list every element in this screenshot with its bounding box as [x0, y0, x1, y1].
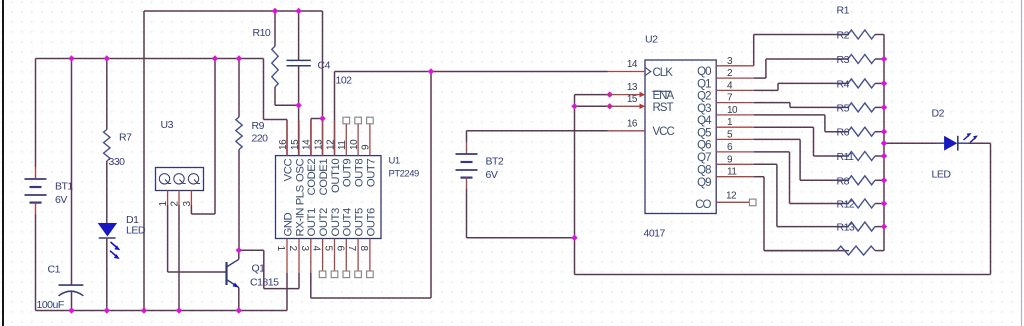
svg-text:9: 9 — [361, 144, 372, 150]
battery BT2 — [456, 154, 504, 181]
wire CLK net — [335, 72, 608, 157]
U1 pin 1 number — [275, 246, 286, 252]
ic U3 box — [156, 119, 204, 191]
U1 pin 4 stub — [322, 239, 324, 274]
ic U2 box — [645, 60, 716, 214]
U2 pin CO name — [695, 199, 711, 211]
wire R5 to bus — [875, 106, 884, 108]
U1 pin 11 stub — [345, 121, 347, 156]
svg-text:VCC: VCC — [653, 126, 675, 138]
wire U1 pin1 GND — [286, 273, 288, 311]
U1 pin 3 stub — [310, 239, 312, 274]
wire top rail — [144, 10, 323, 12]
U1 open terminal — [319, 271, 326, 278]
svg-text:LED: LED — [126, 225, 146, 237]
label R1 — [837, 5, 850, 17]
battery BT1 — [25, 179, 74, 206]
svg-text:U1: U1 — [389, 155, 400, 166]
U1 pin name OUT6 — [365, 208, 377, 236]
wire +V to U1 pin16 — [264, 59, 288, 157]
svg-text:R3: R3 — [837, 54, 850, 66]
svg-text:Q4: Q4 — [697, 115, 712, 127]
U1 pin 14 stub — [310, 121, 312, 156]
wire U3 pin1 to Q1 base — [168, 205, 227, 272]
wire Q7 to row — [754, 152, 849, 204]
U1 pin name OUT5 — [354, 208, 366, 236]
wire BT1 top lead — [35, 59, 37, 180]
svg-text:R5: R5 — [837, 102, 850, 114]
resistor R7 — [104, 130, 132, 169]
wire BT1 bottom lead — [35, 203, 37, 311]
resistor R9 — [236, 117, 268, 150]
wire R10 top lead — [274, 11, 276, 46]
U2 pin Q1 name — [697, 78, 711, 90]
wire RST net — [575, 105, 608, 107]
wire R10 bottom lead — [275, 87, 299, 105]
svg-text:16: 16 — [627, 118, 638, 129]
U1 pin 3 number — [299, 246, 310, 252]
U1 pin name OUT1 — [306, 208, 318, 236]
wire ground rail — [36, 310, 288, 312]
U2 pin 14 CLK — [608, 59, 674, 79]
svg-text:Q0: Q0 — [697, 66, 711, 78]
wire bottom loop — [575, 143, 991, 274]
wire ENA/RST ground vertical — [574, 95, 576, 275]
wire anode bus — [883, 35, 885, 251]
wire bottom resistor leads — [764, 250, 884, 252]
svg-text:PT2249: PT2249 — [389, 169, 419, 180]
svg-text:R8: R8 — [837, 175, 850, 187]
U1 open terminal — [367, 271, 374, 278]
wire C1 top lead — [71, 59, 73, 286]
svg-text:R1: R1 — [837, 5, 850, 17]
U1 open terminal — [343, 271, 350, 278]
svg-text:R4: R4 — [837, 78, 850, 90]
wire R8 to bus — [875, 179, 884, 181]
U1 pin 8 stub — [369, 239, 371, 274]
svg-text:D2: D2 — [932, 108, 945, 120]
U1 pin 6 stub — [345, 239, 347, 274]
U2 pin Q5 name — [697, 127, 711, 139]
wire Q1 collector — [238, 250, 240, 259]
wire R13 to bus — [875, 226, 884, 228]
wire Q6 to row — [754, 139, 849, 180]
U3 contacts — [159, 174, 200, 184]
U1 pin 8 number — [358, 246, 369, 252]
wire R7-D1 lead — [106, 161, 108, 223]
svg-text:10: 10 — [349, 139, 360, 150]
wire R7 top lead — [106, 59, 108, 130]
U2 pin Q6 number — [727, 129, 733, 140]
svg-text:R13: R13 — [837, 222, 855, 234]
svg-text:GND: GND — [282, 212, 294, 236]
svg-text:OUT8: OUT8 — [354, 159, 366, 187]
svg-text:R7: R7 — [119, 131, 132, 143]
U1 pin name CODE1 — [318, 159, 330, 196]
svg-text:12: 12 — [325, 139, 336, 150]
U1 pin name OUT3 — [330, 208, 342, 236]
resistor R3 — [837, 54, 876, 66]
wire Q3 to row — [754, 103, 849, 108]
resistor R11 — [837, 151, 876, 163]
diode D2 LED — [932, 108, 979, 181]
svg-text:6V: 6V — [486, 169, 498, 181]
svg-text:330: 330 — [109, 156, 126, 168]
svg-text:15: 15 — [627, 94, 638, 105]
U1 pin name GND — [282, 212, 294, 236]
U1 pin 7 number — [346, 246, 357, 252]
U1 pin 4 number — [311, 246, 322, 252]
U2 pin Q9 stub — [716, 176, 754, 178]
svg-text:U3: U3 — [161, 119, 174, 131]
svg-text:OUT10: OUT10 — [330, 159, 342, 193]
resistor R (bottom unlabeled) — [837, 246, 875, 255]
svg-text:6V: 6V — [55, 194, 67, 206]
resistor R13 — [837, 222, 876, 234]
svg-text:12: 12 — [726, 191, 737, 202]
svg-text:R10: R10 — [253, 27, 271, 39]
U1 open terminal — [355, 271, 362, 278]
junction dots ENA/RST — [607, 91, 613, 109]
svg-text:100uF: 100uF — [37, 299, 64, 311]
U1 pin name OSC — [294, 159, 306, 182]
U2 pin Q6 name — [697, 140, 711, 152]
resistor R6 — [837, 127, 876, 139]
wire R11 to bus — [875, 155, 884, 157]
svg-text:14: 14 — [302, 139, 313, 150]
U1 open terminal — [343, 117, 350, 124]
U2 pin Q8 name — [697, 165, 711, 177]
U2 pin Q2 stub — [716, 89, 754, 91]
svg-text:LED: LED — [932, 169, 952, 181]
U2 pin Q1 number — [727, 68, 733, 79]
diode D1 LED — [98, 214, 146, 259]
wire Q4 to row — [754, 115, 849, 132]
U2 pin Q3 stub — [716, 102, 754, 104]
svg-text:Q3: Q3 — [697, 103, 711, 115]
U1 pin name RX-IN PLS — [294, 184, 306, 236]
U1 pin name CODE2 — [306, 159, 318, 196]
CO open terminal — [749, 199, 756, 206]
transistor Q1 — [227, 259, 280, 288]
U1 designator — [389, 155, 419, 179]
U2 pin Q2 name — [697, 91, 711, 103]
U1 open terminal — [331, 271, 338, 278]
svg-text:R9: R9 — [252, 120, 265, 132]
svg-text:CLK: CLK — [653, 67, 674, 79]
U2 pin Q9 number — [727, 167, 737, 178]
wire Q5 to row — [754, 127, 849, 156]
U2 pin Q1 stub — [716, 77, 754, 79]
U1 pin 14 number — [302, 139, 313, 150]
svg-text:BT2: BT2 — [486, 156, 504, 168]
svg-text:R11: R11 — [837, 151, 855, 163]
U2 pin Q8 stub — [716, 163, 754, 165]
svg-text:13: 13 — [627, 82, 638, 93]
svg-text:OUT7: OUT7 — [365, 159, 377, 187]
U2 pin 15 RST — [608, 94, 674, 114]
U1 pin 12 number — [325, 139, 336, 150]
sheet border left — [2, 0, 4, 326]
svg-text:11: 11 — [337, 140, 348, 150]
svg-text:OUT5: OUT5 — [354, 208, 366, 236]
U2 pin Q5 stub — [716, 126, 754, 128]
svg-text:10: 10 — [727, 105, 738, 116]
resistor R12 — [837, 199, 876, 211]
U2 designator — [644, 34, 666, 240]
svg-text:RX-IN PLS: RX-IN PLS — [294, 184, 306, 236]
U2 pin Q5 number — [727, 117, 733, 128]
sheet border right — [1021, 0, 1023, 326]
svg-text:BT1: BT1 — [55, 181, 73, 193]
wire D2 cathode — [968, 142, 991, 144]
U1 pin name OUT10 — [330, 159, 342, 193]
wire pin13-pin14 jog — [311, 119, 323, 157]
svg-text:R2: R2 — [837, 30, 850, 42]
capacitor C4 — [287, 60, 353, 87]
svg-text:Q8: Q8 — [697, 165, 711, 177]
U1 pin 2 stub — [298, 239, 300, 274]
U1 pin 5 number — [323, 246, 334, 252]
U2 pin Q3 number — [727, 93, 733, 104]
U2 pin Q7 stub — [716, 151, 754, 153]
U1 pin name OUT7 — [365, 159, 377, 187]
U1 pin 10 stub — [357, 121, 359, 156]
U1 open terminal — [367, 117, 374, 124]
wire top rail to U1 pin13 — [322, 11, 324, 156]
U1 pin 5 stub — [334, 239, 336, 274]
U1 pin 15 stub — [298, 121, 300, 156]
svg-text:15: 15 — [290, 139, 301, 150]
wire BT2 top — [467, 131, 608, 154]
svg-text:C1815: C1815 — [250, 276, 279, 288]
U2 pin Q2 number — [727, 80, 733, 91]
svg-text:U2: U2 — [645, 34, 658, 46]
svg-text:Q2: Q2 — [697, 91, 711, 103]
U1 pin name OUT8 — [354, 159, 366, 187]
svg-text:14: 14 — [627, 59, 638, 70]
U3 pin 2 — [169, 191, 180, 207]
svg-text:R6: R6 — [837, 127, 850, 139]
wire C4 top lead — [298, 11, 300, 60]
svg-text:OUT6: OUT6 — [365, 208, 377, 236]
U1 pin name OUT9 — [342, 159, 354, 187]
wire R2 to bus — [875, 34, 884, 36]
svg-text:Q9: Q9 — [697, 177, 711, 189]
svg-text:Q5: Q5 — [697, 127, 711, 139]
svg-text:Q7: Q7 — [697, 152, 711, 164]
wire R9 bottom lead — [238, 150, 240, 251]
svg-text:16: 16 — [278, 139, 289, 150]
U1 pin 10 number — [349, 139, 360, 150]
U1 pin name OUT4 — [342, 208, 354, 236]
wire Q1 emitter to ground — [238, 288, 240, 311]
wire Q0 to row — [754, 35, 849, 66]
wire R9 top lead — [238, 59, 240, 118]
wire Q8 to row — [754, 164, 849, 226]
U2 pin 12 number — [726, 191, 737, 202]
U1 pin 13 number — [313, 139, 324, 150]
svg-text:13: 13 — [313, 139, 324, 150]
U3 pin 3 — [182, 191, 193, 207]
U2 pin Q8 number — [727, 154, 733, 165]
svg-text:VCC: VCC — [282, 159, 294, 182]
wire left vertical x144 — [143, 11, 145, 311]
capacitor C1 — [37, 264, 84, 312]
svg-text:OUT3: OUT3 — [330, 208, 342, 236]
wire R12 to bus — [875, 203, 884, 205]
wire R4 to bus — [875, 82, 884, 84]
wire +V rail y58.5 — [36, 58, 264, 60]
resistor R4 — [837, 78, 876, 90]
U2 pin Q0 number — [727, 56, 733, 67]
U1 pin 15 number — [290, 139, 301, 150]
wire Q2 to row — [754, 83, 849, 90]
wire ENA net — [575, 94, 608, 96]
U2 pin Q7 number — [727, 142, 733, 153]
wire BT2 bottom — [467, 178, 575, 238]
U1 pin 11 number — [337, 140, 348, 150]
wire U3 pin2 to ground — [178, 205, 180, 311]
U1 pin 9 stub — [369, 121, 371, 156]
U2 pin 16 VCC — [608, 118, 675, 138]
wire Q1 to row — [754, 59, 849, 78]
svg-text:CODE2: CODE2 — [306, 159, 318, 196]
U2 pin 13 ENA — [608, 82, 675, 102]
svg-text:C4: C4 — [318, 60, 331, 72]
svg-text:CO: CO — [695, 199, 711, 211]
resistor R10 — [253, 27, 279, 87]
wire bus to D2 — [884, 142, 938, 144]
svg-text:OUT1: OUT1 — [306, 208, 318, 236]
U1 pin 9 number — [361, 144, 372, 150]
U1 pin 6 number — [334, 246, 345, 252]
U2 pin Q9 name — [697, 177, 711, 189]
svg-text:OSC: OSC — [294, 159, 306, 182]
svg-text:4017: 4017 — [644, 228, 666, 240]
U1 pin name OUT2 — [318, 208, 330, 236]
U3 pin 1 — [158, 191, 169, 207]
svg-text:102: 102 — [336, 74, 353, 86]
wire U1 pin3 OUT1 route — [311, 72, 431, 299]
U2 pin Q4 number — [727, 105, 738, 116]
U2 pin Q0 stub — [716, 65, 754, 67]
U1 pin 13 stub — [322, 121, 324, 156]
svg-text:CODE1: CODE1 — [318, 159, 330, 196]
U2 pin CO stub — [716, 201, 749, 203]
resistor R2 — [837, 30, 876, 42]
svg-text:11: 11 — [727, 167, 737, 178]
resistor R5 — [837, 102, 876, 114]
U2 pin Q4 name — [697, 115, 712, 127]
U2 pin Q6 stub — [716, 138, 754, 140]
U1 pin 2 number — [287, 246, 298, 252]
svg-text:RST: RST — [653, 102, 674, 114]
U2 pin Q3 name — [697, 103, 711, 115]
wire C4 bottom to U1 pin15 — [298, 66, 300, 156]
wire U3 pin3 to +V — [191, 59, 215, 215]
wire R3 to bus — [875, 58, 884, 60]
wire R6 to bus — [875, 131, 884, 133]
U2 pin Q4 stub — [716, 114, 754, 116]
svg-text:C1: C1 — [48, 264, 61, 276]
U1 pin 12 stub — [334, 121, 336, 156]
svg-text:Q1: Q1 — [697, 78, 711, 90]
U2 pin Q7 name — [697, 152, 711, 164]
U1 pin 16 stub — [286, 121, 288, 156]
U2 pin Q0 name — [697, 66, 711, 78]
svg-text:Q6: Q6 — [697, 140, 711, 152]
U1 pin 1 stub — [286, 239, 288, 274]
resistor R8 — [837, 175, 876, 187]
svg-text:OUT9: OUT9 — [342, 159, 354, 187]
svg-text:OUT2: OUT2 — [318, 208, 330, 236]
wire collector to U1 pin2 — [239, 250, 299, 288]
U1 pin name VCC — [282, 159, 294, 182]
U1 open terminal — [355, 117, 362, 124]
ic U1 box — [276, 156, 382, 239]
wire D1 bottom lead — [106, 238, 108, 311]
U1 pin 16 number — [278, 139, 289, 150]
U1 pin 7 stub — [357, 239, 359, 274]
svg-text:220: 220 — [252, 133, 269, 145]
svg-text:OUT4: OUT4 — [342, 208, 354, 236]
wire Q9 to row — [754, 177, 849, 251]
svg-text:R12: R12 — [837, 199, 855, 211]
